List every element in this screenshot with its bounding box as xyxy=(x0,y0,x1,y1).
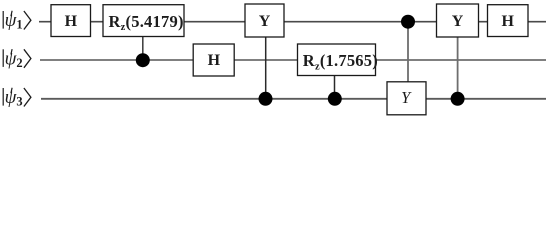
svg-text:H: H xyxy=(501,13,514,30)
svg-text:Y: Y xyxy=(452,13,464,30)
qubit label |psi2> xyxy=(3,48,31,70)
gate Y q1 first xyxy=(245,4,284,37)
wire control q1 to Y3 xyxy=(407,22,409,82)
svg-text:Y: Y xyxy=(259,13,271,30)
wire control RZ2 to q3 xyxy=(334,76,336,99)
qubit label |psi1> xyxy=(3,10,31,32)
gate H q1 xyxy=(51,5,91,37)
gate Rz(5.4179) q1 xyxy=(103,5,184,37)
gate Y q3 xyxy=(387,82,426,115)
svg-text:Rz(5.4179): Rz(5.4179) xyxy=(109,12,184,33)
qubit label |psi3> xyxy=(3,87,31,109)
wire control Y2 to q3 xyxy=(457,37,459,99)
gate H q1 right xyxy=(488,5,529,37)
gate Y q1 second xyxy=(437,4,479,37)
gate H q2 xyxy=(193,44,234,76)
wire qubit2 xyxy=(40,59,546,61)
wire control Y1 to q3 xyxy=(265,37,267,99)
control dot q2 x143 xyxy=(136,53,150,67)
control dot q3 x335 xyxy=(328,92,342,106)
wire qubit1 xyxy=(39,21,546,23)
svg-text:H: H xyxy=(65,13,78,30)
svg-text:H: H xyxy=(208,52,221,69)
gate Rz(1.7565) q2 xyxy=(298,44,378,76)
svg-text:Rz(1.7565): Rz(1.7565) xyxy=(303,51,378,72)
control dot q3 x457 xyxy=(451,92,465,106)
wire control RZ1 to q2 xyxy=(142,36,144,60)
control dot q1 x408 xyxy=(401,15,415,29)
control dot q3 x265 xyxy=(259,92,273,106)
wire qubit3 xyxy=(41,98,546,100)
